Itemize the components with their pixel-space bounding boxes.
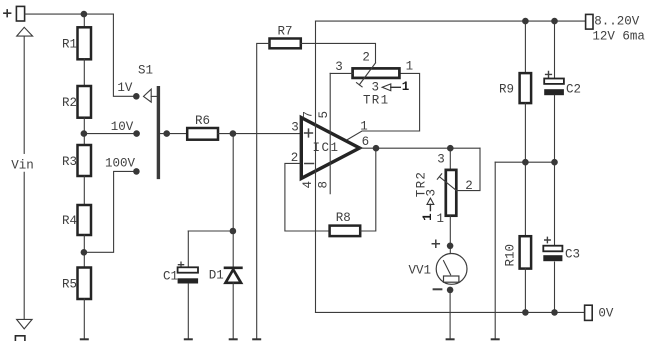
wire (junction to R1) [83,14,85,27]
svg-text:R8: R8 [336,211,351,225]
tick (cut wire bottom, C1) [185,338,192,340]
pin 1 diagonal (offset null) [347,73,419,139]
wire (top bus to R9) [524,21,526,73]
svg-text:R2: R2 [62,96,77,110]
switch S1 wiper arrow [144,89,157,102]
resistor R10 [504,236,532,268]
wire (mid bus to R10) [524,162,526,236]
wire (R10 bottom to 0V bus) [524,269,526,313]
node (mid bus C3) [551,159,558,166]
svg-text:R6: R6 [195,114,210,128]
node 100V [133,168,140,175]
svg-text:R3: R3 [62,155,77,169]
svg-text:4: 4 [301,181,315,189]
terminal + (Vin top) [4,6,25,21]
wire (V+ / V- rail: pin7 from top bus through to 0V bus corner) [315,21,317,312]
wire (pin2 loop to R8) [285,163,330,231]
node (R9 top) [522,18,529,25]
wire (meter minus to edge) [449,293,451,338]
svg-text:3: 3 [291,120,299,134]
wire (R9 bottom to mid bus) [524,103,526,162]
wire (R6 node down to C1/D1 rail) [232,134,234,231]
node (C2 top) [551,18,558,25]
resistor R7 [270,25,301,49]
node (R6 output junction) [230,130,237,137]
wire (R7 left down to edge) [257,43,270,338]
capacitor C2 [544,72,581,97]
svg-text:5: 5 [317,111,331,119]
node (switch common to R6) [163,130,170,137]
wire (R6 to IC1 +input) [218,133,300,135]
wire (TR2 wiper loop to output) [457,148,481,190]
wire (pin5 line from TR1 down through triangle, pin8 stub) [329,73,331,193]
svg-text:1: 1 [421,213,435,221]
svg-text:0V: 0V [598,307,614,321]
wire (R2-R3 through 10V node) [83,118,85,145]
svg-text:3: 3 [372,80,380,94]
node (0V bus C3) [551,309,558,316]
wire (R4-R5 through 100V node) [83,235,85,268]
svg-text:3: 3 [424,189,438,197]
node (mid bus R10) [522,159,529,166]
resistor R4 [62,205,91,235]
resistor R6 [187,114,218,140]
svg-text:1: 1 [437,212,445,226]
terminal (Vin bottom) [15,336,25,341]
wire (+ terminal to 1V corner) [25,13,114,15]
capacitor C1 [163,262,198,284]
trimmer TR1 [335,51,413,108]
wire (R1-R2) [83,59,85,86]
0V bottom bus [316,311,585,313]
wire (top bus to C2) [554,21,556,78]
node (0V bus R10) [522,309,529,316]
node (C1/D1 junction) [230,228,237,235]
wire (mid bus to C3) [554,162,556,246]
mid bus [495,161,554,163]
resistor R8 [330,211,361,236]
trimmer TR2 [414,152,472,226]
wire (1V tap: top corner down to 1V dot) [113,14,133,96]
Vin source arrow up [17,27,33,153]
svg-text:1: 1 [402,80,410,94]
wire (100V tap: dot left then down to R4/R5 node) [87,171,133,252]
resistor R9 [499,73,531,103]
node (R1 top junction) [81,11,88,18]
wire (10V tap) [87,133,133,135]
node (output/R8) [373,145,380,152]
op-amp IC1 [301,118,359,179]
svg-text:D1: D1 [209,268,224,282]
top supply bus [316,20,586,22]
svg-text:Vin: Vin [11,158,34,172]
TR2 direction annotation 3<-1 (rotated) [421,189,439,221]
node 10V [133,130,140,137]
tick (cut wire bottom, R7 leg) [253,338,260,340]
node 1V [133,93,140,100]
resistor R5 [62,268,91,300]
wire (C3 bottom to 0V bus) [554,262,556,312]
svg-text:8..20V: 8..20V [594,14,640,28]
node (100V junction) [81,249,88,256]
tick (cut wire bottom, mid-bus leg) [492,338,499,340]
svg-text:C2: C2 [566,82,581,96]
wire (R8 right up to output) [360,148,376,231]
svg-text:C1: C1 [163,270,178,284]
svg-text:R1: R1 [62,38,77,52]
wire (TR2 bottom to meter) [449,216,451,246]
wire (Vin shaft lower) [23,172,25,319]
svg-text:R10: R10 [504,244,518,267]
wire (mid bus left corner down to edge) [494,162,496,338]
TR1 direction annotation 3<-1 [372,80,410,94]
tick (cut wire bottom, D1) [230,338,237,340]
svg-text:VV1: VV1 [409,264,432,278]
wire (C2 bottom to mid bus) [554,95,556,162]
terminal 0V [585,305,614,320]
wire (C1 bottom to edge) [187,284,189,339]
resistor R1 [62,27,91,59]
wire (down to C1 top) [187,231,189,267]
svg-text:3: 3 [335,60,343,74]
svg-text:R4: R4 [62,214,77,228]
wire (junction left to C1) [188,230,233,232]
wire (R7 right to TR1 wiper stem) [301,43,376,63]
wire (junction down to D1) [232,234,234,267]
wire (output node down to TR2) [449,148,451,170]
terminal 8..20V [586,14,646,43]
svg-text:8: 8 [316,181,330,189]
node (10V junction) [81,130,88,137]
svg-text:R7: R7 [278,25,293,39]
svg-text:3: 3 [437,152,445,166]
diode D1 [209,268,242,283]
svg-text:IC1: IC1 [313,141,340,155]
Vin source arrow down [17,319,32,329]
wire (D1 bottom to edge) [232,283,234,339]
svg-text:S1: S1 [138,64,153,78]
svg-text:R5: R5 [62,278,77,292]
svg-text:2: 2 [362,51,370,65]
wire (R5 down to edge) [83,299,85,338]
capacitor C3 [543,237,580,261]
wire (bar to R6) [160,133,187,135]
svg-text:1: 1 [406,59,414,73]
svg-text:7: 7 [302,111,316,119]
svg-text:100V: 100V [105,157,136,171]
svg-text:12V 6ma: 12V 6ma [592,30,645,44]
svg-text:10V: 10V [111,120,134,134]
switch S1 pole bar [157,88,160,178]
svg-text:TR1: TR1 [363,93,389,107]
svg-text:R9: R9 [499,82,514,96]
svg-text:6: 6 [362,135,370,149]
wire (TR1 pin3 loop to IC1 pin5) [330,72,352,74]
resistor R3 [62,145,91,176]
node (output/TR2) [447,145,454,152]
resistor R2 [62,86,91,118]
svg-text:1V: 1V [117,81,133,95]
wire (output) [360,147,480,149]
svg-text:1: 1 [360,119,368,133]
tick (cut wire bottom, meter leg) [447,338,454,340]
tick (cut wire bottom, R5) [81,338,88,340]
meter VV1 [409,240,468,293]
wire (R3-R4) [83,176,85,205]
svg-text:C3: C3 [565,247,580,261]
